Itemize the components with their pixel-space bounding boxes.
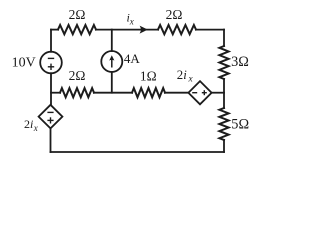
wire left branch mid xyxy=(50,73,52,105)
svg-text:10V: 10V xyxy=(12,56,36,71)
wire right branch lower xyxy=(223,140,225,152)
wire middle left segment xyxy=(51,92,60,94)
svg-text:1Ω: 1Ω xyxy=(140,69,157,84)
wire left branch bottom xyxy=(50,128,52,152)
wire 4A branch upper xyxy=(111,30,113,51)
svg-text:5Ω: 5Ω xyxy=(231,116,249,132)
wire left branch top xyxy=(50,30,52,52)
label 2ix (left source) xyxy=(24,117,38,133)
voltage source V1 10V xyxy=(40,52,62,74)
resistor R5 2Ω (middle) xyxy=(60,88,94,97)
wire right branch upper xyxy=(223,30,225,46)
dependent source E1 polarity signs xyxy=(47,112,53,123)
wire top-left segment xyxy=(51,29,58,31)
svg-text:2i: 2i xyxy=(24,117,33,131)
resistor R4 5Ω xyxy=(219,108,228,140)
resistor R2 2Ω (top right) xyxy=(158,25,196,34)
svg-text:x: x xyxy=(33,123,38,133)
current source I1 arrow xyxy=(109,55,114,67)
current source I1 4A xyxy=(101,51,122,72)
svg-text:2Ω: 2Ω xyxy=(166,7,183,22)
dependent source E2 2ix (diamond right) xyxy=(188,81,211,104)
resistor R1 2Ω (top left) xyxy=(58,25,96,34)
dependent source E1 2ix (diamond left) xyxy=(39,105,63,129)
voltage source V1 polarity signs xyxy=(48,58,54,70)
resistor R3 3Ω xyxy=(219,46,228,79)
current arrow ix on top wire xyxy=(140,26,148,34)
wire top middle segment xyxy=(96,29,158,31)
svg-text:2i: 2i xyxy=(177,68,187,82)
svg-text:2Ω: 2Ω xyxy=(69,7,86,22)
wire bottom xyxy=(51,151,225,153)
svg-text:3Ω: 3Ω xyxy=(231,54,249,70)
svg-text:2Ω: 2Ω xyxy=(69,68,86,83)
label ix xyxy=(127,11,134,27)
svg-text:x: x xyxy=(129,17,134,27)
wire right branch middle xyxy=(223,79,225,108)
wire middle right segment xyxy=(165,92,188,94)
wire 4A branch lower xyxy=(111,72,113,93)
wire to right branch xyxy=(212,92,224,94)
wire top right segment xyxy=(196,29,224,31)
svg-text:4A: 4A xyxy=(124,51,141,66)
svg-text:x: x xyxy=(188,75,194,85)
dependent source E2 polarity signs xyxy=(192,90,207,95)
resistor R6 1Ω xyxy=(132,88,165,97)
wire middle centre segment xyxy=(94,92,132,94)
label 2ix (right source) xyxy=(177,68,194,85)
